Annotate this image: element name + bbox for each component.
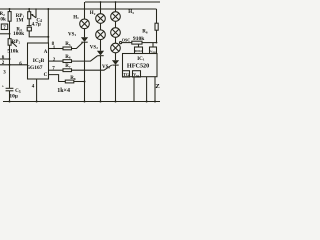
svg-text:IC1: IC1: [137, 57, 145, 62]
svg-text:RP2: RP2: [12, 40, 21, 45]
svg-text:H1: H1: [73, 15, 79, 20]
svg-text:R8: R8: [70, 76, 76, 81]
svg-text:1M: 1M: [16, 18, 24, 24]
svg-text:R5: R5: [65, 42, 71, 47]
svg-text:10k: 10k: [0, 17, 6, 23]
svg-text:IC2B: IC2B: [33, 58, 45, 64]
svg-text:1k×4: 1k×4: [57, 88, 70, 94]
svg-text:VS2: VS2: [90, 45, 98, 50]
svg-text:VS1: VS1: [68, 32, 76, 37]
svg-text:R7: R7: [65, 64, 71, 69]
svg-text:10μ: 10μ: [9, 94, 17, 100]
svg-text:A: A: [44, 50, 48, 55]
svg-text:Z: Z: [155, 83, 159, 90]
svg-text:VDD: VDD: [150, 49, 156, 54]
svg-text:C: C: [44, 73, 48, 78]
svg-text:510k: 510k: [7, 49, 18, 55]
svg-text:100k: 100k: [13, 31, 24, 37]
svg-text:HFC520: HFC520: [127, 63, 149, 70]
svg-text:4.7μ: 4.7μ: [32, 23, 41, 28]
svg-text:R6: R6: [65, 55, 71, 60]
svg-text:H3: H3: [128, 10, 134, 15]
svg-text:5G167: 5G167: [27, 65, 43, 71]
svg-text:910k: 910k: [133, 36, 145, 42]
svg-text:H2: H2: [90, 11, 96, 16]
svg-text:TG: TG: [123, 72, 129, 77]
svg-text:DISC: DISC: [135, 49, 143, 53]
svg-text:R8: R8: [142, 30, 148, 35]
svg-text:OSC: OSC: [122, 38, 131, 43]
svg-text:VS3: VS3: [102, 65, 110, 70]
